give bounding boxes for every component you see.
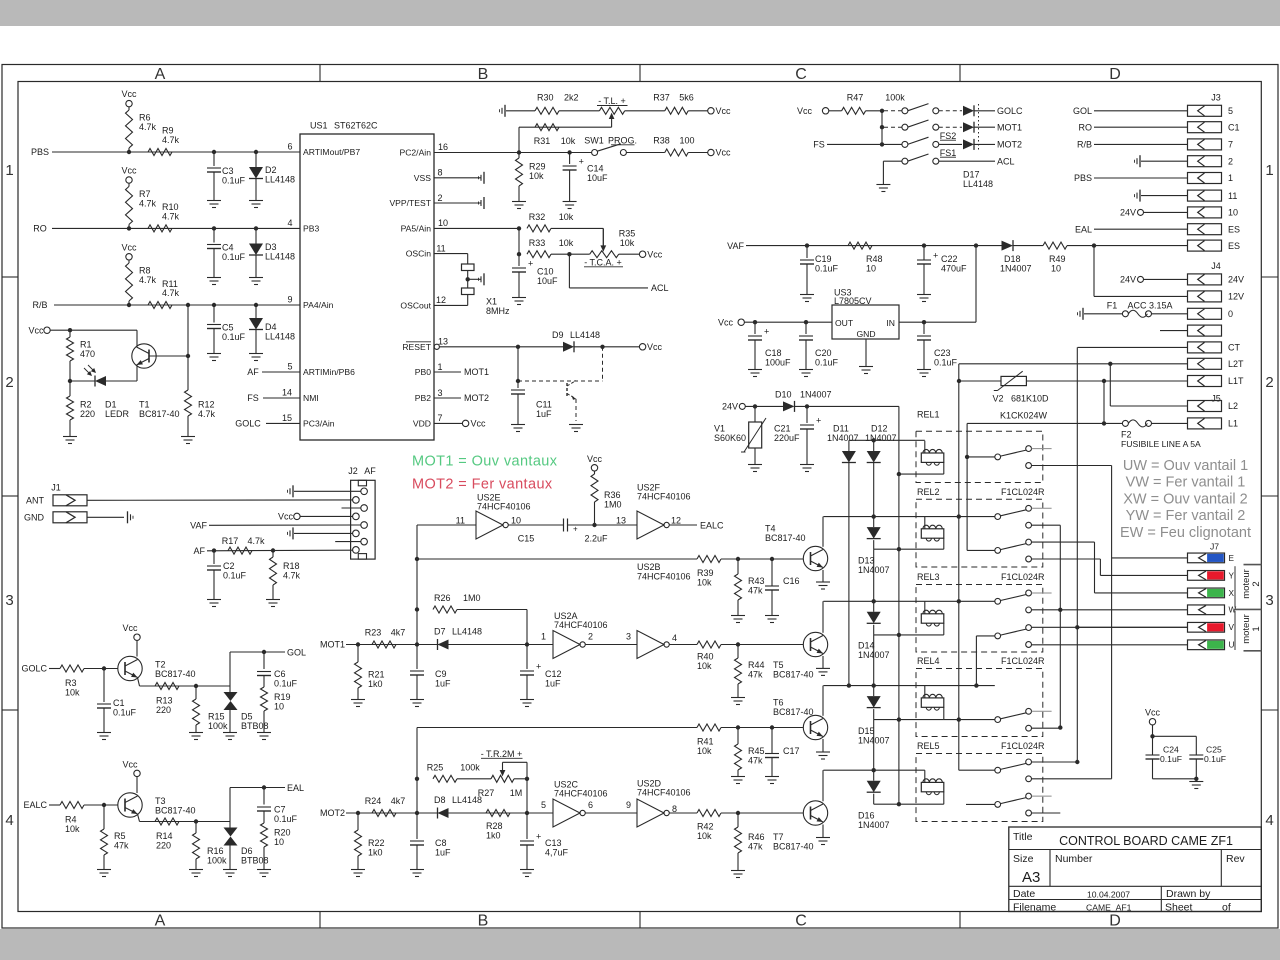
svg-text:C16: C16 [783, 576, 800, 586]
svg-text:R18: R18 [283, 561, 300, 571]
svg-text:A3: A3 [1022, 869, 1040, 886]
svg-text:24V: 24V [722, 402, 738, 412]
svg-text:2: 2 [1228, 156, 1233, 166]
svg-text:R46: R46 [748, 832, 765, 842]
svg-text:GOLC: GOLC [235, 419, 261, 429]
svg-text:AF: AF [247, 367, 259, 377]
svg-text:Vcc: Vcc [716, 148, 732, 158]
svg-text:1uF: 1uF [545, 679, 561, 689]
svg-text:YW = Fer vantail 2: YW = Fer vantail 2 [1126, 508, 1246, 524]
svg-text:VAF: VAF [727, 241, 744, 251]
svg-text:FS: FS [813, 140, 825, 150]
svg-text:74HCF40106: 74HCF40106 [554, 789, 608, 799]
svg-text:R6: R6 [139, 113, 151, 123]
svg-text:0.1uF: 0.1uF [1160, 754, 1182, 764]
svg-text:1M0: 1M0 [604, 499, 622, 509]
svg-text:4.7k: 4.7k [162, 212, 180, 222]
svg-text:Vcc: Vcc [587, 454, 603, 464]
svg-text:RO: RO [1079, 122, 1093, 132]
svg-text:Vcc: Vcc [121, 243, 137, 253]
svg-text:PB2: PB2 [415, 393, 431, 403]
svg-text:Title: Title [1013, 831, 1033, 843]
svg-text:C15: C15 [518, 533, 535, 543]
svg-text:R24: R24 [365, 796, 382, 806]
svg-text:R47: R47 [847, 93, 864, 103]
svg-text:12: 12 [671, 516, 681, 526]
svg-text:GND: GND [24, 512, 45, 522]
svg-text:BC817-40: BC817-40 [139, 409, 180, 419]
svg-text:2: 2 [1265, 374, 1273, 391]
svg-text:J5: J5 [1211, 394, 1221, 404]
svg-text:BC817-40: BC817-40 [155, 669, 196, 679]
svg-text:F1CL024R: F1CL024R [1001, 572, 1045, 582]
svg-text:GOL: GOL [287, 647, 306, 657]
svg-text:BC817-40: BC817-40 [773, 841, 814, 851]
svg-text:2.2uF: 2.2uF [584, 533, 608, 543]
svg-text:C21: C21 [774, 424, 791, 434]
svg-text:REL4: REL4 [917, 656, 940, 666]
svg-text:100k: 100k [885, 93, 905, 103]
svg-text:R19: R19 [274, 692, 291, 702]
svg-text:47k: 47k [748, 755, 763, 765]
svg-text:47k: 47k [748, 669, 763, 679]
svg-text:10k: 10k [697, 577, 712, 587]
svg-text:D7: D7 [434, 626, 446, 636]
svg-text:EAL: EAL [1075, 224, 1092, 234]
svg-text:1N4007: 1N4007 [800, 389, 832, 399]
svg-text:F1CL024R: F1CL024R [1001, 741, 1045, 751]
svg-text:74HCF40106: 74HCF40106 [477, 502, 531, 512]
svg-text:ACL: ACL [997, 156, 1015, 166]
svg-text:0.1uF: 0.1uF [113, 707, 137, 717]
svg-text:R5: R5 [114, 831, 126, 841]
svg-text:1: 1 [541, 631, 546, 641]
svg-text:GOLC: GOLC [997, 106, 1023, 116]
svg-text:1M: 1M [510, 788, 523, 798]
svg-text:3: 3 [437, 388, 442, 398]
svg-text:of: of [1222, 902, 1231, 914]
svg-text:+: + [579, 157, 584, 167]
svg-text:R28: R28 [486, 821, 503, 831]
svg-text:T6: T6 [773, 697, 784, 707]
svg-text:R23: R23 [365, 627, 382, 637]
svg-text:C23: C23 [934, 348, 951, 358]
svg-text:Filename: Filename [1013, 902, 1056, 914]
svg-text:100k: 100k [208, 721, 228, 731]
svg-text:PBS: PBS [31, 147, 49, 157]
svg-text:ARTIMout/PB7: ARTIMout/PB7 [303, 147, 360, 157]
svg-text:1N4007: 1N4007 [865, 433, 897, 443]
svg-text:D1: D1 [105, 400, 117, 410]
svg-text:74HCF40106: 74HCF40106 [554, 620, 608, 630]
svg-text:RO: RO [33, 224, 47, 234]
svg-text:C13: C13 [545, 838, 562, 848]
svg-text:R29: R29 [529, 162, 546, 172]
svg-text:12V: 12V [1228, 292, 1244, 302]
svg-text:7: 7 [1228, 140, 1233, 150]
svg-text:Date: Date [1013, 888, 1035, 900]
svg-text:10: 10 [274, 837, 284, 847]
svg-text:ANT: ANT [26, 495, 45, 505]
svg-text:VPP/TEST: VPP/TEST [389, 198, 431, 208]
svg-text:4: 4 [1265, 812, 1273, 829]
svg-text:X: X [1229, 589, 1235, 598]
svg-text:FS2: FS2 [940, 131, 957, 141]
svg-text:10k: 10k [561, 136, 576, 146]
svg-text:Vcc: Vcc [647, 342, 663, 352]
svg-text:R30: R30 [537, 93, 554, 103]
svg-text:Size: Size [1013, 853, 1034, 865]
svg-text:10: 10 [1228, 208, 1238, 218]
svg-text:PBS: PBS [1074, 173, 1092, 183]
svg-text:0.1uF: 0.1uF [1204, 754, 1226, 764]
svg-text:R48: R48 [866, 254, 883, 264]
svg-text:4.7k: 4.7k [139, 199, 157, 209]
svg-text:SW1: SW1 [584, 136, 604, 146]
svg-text:UW = Ouv vantail 1: UW = Ouv vantail 1 [1123, 458, 1248, 474]
svg-text:LL4148: LL4148 [570, 330, 600, 340]
svg-text:Vcc: Vcc [797, 106, 813, 116]
svg-text:470: 470 [80, 349, 95, 359]
svg-text:10k: 10k [697, 831, 712, 841]
svg-text:FUSIBILE LINE A 5A: FUSIBILE LINE A 5A [1121, 439, 1201, 449]
svg-text:220: 220 [156, 841, 171, 851]
svg-text:E: E [1229, 554, 1235, 563]
svg-text:11: 11 [436, 243, 445, 253]
svg-text:L1: L1 [1228, 419, 1238, 429]
svg-text:4.7k: 4.7k [198, 409, 216, 419]
svg-text:R41: R41 [697, 737, 714, 747]
svg-text:L7805CV: L7805CV [834, 296, 872, 306]
svg-text:C7: C7 [274, 805, 286, 815]
svg-text:47k: 47k [114, 841, 129, 851]
svg-text:REL3: REL3 [917, 572, 940, 582]
svg-text:PC3/Ain: PC3/Ain [303, 418, 335, 428]
svg-text:R3: R3 [65, 678, 77, 688]
svg-text:7: 7 [437, 413, 442, 423]
svg-text:R49: R49 [1049, 254, 1066, 264]
svg-text:ES: ES [1228, 241, 1240, 251]
svg-text:F1: F1 [1107, 300, 1118, 310]
svg-text:Vcc: Vcc [716, 106, 732, 116]
svg-text:LL4148: LL4148 [265, 332, 295, 342]
svg-text:BC817-40: BC817-40 [765, 533, 806, 543]
svg-text:VDD: VDD [413, 418, 431, 428]
svg-text:A: A [155, 66, 166, 83]
svg-text:R42: R42 [697, 821, 714, 831]
svg-text:R15: R15 [208, 712, 225, 722]
svg-text:D5: D5 [241, 712, 253, 722]
svg-text:OSCout: OSCout [400, 300, 431, 310]
svg-text:2: 2 [437, 193, 442, 203]
svg-text:R36: R36 [604, 490, 621, 500]
svg-text:10: 10 [438, 218, 448, 228]
svg-text:LL4148: LL4148 [963, 179, 993, 189]
svg-text:74HCF40106: 74HCF40106 [637, 788, 691, 798]
svg-text:R35: R35 [619, 229, 636, 239]
svg-text:R4: R4 [65, 815, 77, 825]
svg-text:4.7k: 4.7k [139, 275, 157, 285]
svg-text:10: 10 [1051, 263, 1061, 273]
svg-text:C: C [795, 913, 807, 930]
svg-text:470uF: 470uF [941, 263, 967, 273]
svg-text:RESET: RESET [402, 342, 431, 352]
svg-text:5: 5 [1228, 106, 1233, 116]
svg-text:24V: 24V [1120, 208, 1136, 218]
svg-text:Vcc: Vcc [718, 317, 734, 327]
svg-text:10uF: 10uF [537, 276, 558, 286]
svg-text:Number: Number [1055, 853, 1093, 865]
svg-text:10k: 10k [65, 688, 80, 698]
svg-text:V: V [1229, 623, 1235, 632]
svg-text:R9: R9 [162, 126, 174, 136]
svg-text:100: 100 [679, 135, 694, 145]
svg-text:R20: R20 [274, 828, 291, 838]
svg-text:D14: D14 [858, 641, 875, 651]
svg-text:MOT2: MOT2 [997, 140, 1022, 150]
svg-text:10uF: 10uF [587, 173, 608, 183]
svg-text:R/B: R/B [32, 300, 47, 310]
svg-text:0.1uF: 0.1uF [815, 263, 839, 273]
svg-text:V2: V2 [992, 393, 1003, 403]
svg-text:EAL: EAL [287, 783, 304, 793]
svg-text:R21: R21 [368, 670, 385, 680]
svg-text:F1CL024R: F1CL024R [1001, 487, 1045, 497]
svg-text:+: + [528, 259, 533, 269]
svg-text:BC817-40: BC817-40 [155, 806, 196, 816]
svg-text:C2: C2 [223, 561, 235, 571]
svg-text:PA4/Ain: PA4/Ain [303, 300, 334, 310]
svg-text:+: + [536, 662, 541, 672]
svg-text:1: 1 [1265, 162, 1273, 179]
svg-text:1N4007: 1N4007 [827, 433, 859, 443]
svg-text:J3: J3 [1211, 93, 1221, 103]
svg-text:10k: 10k [559, 238, 574, 248]
svg-text:FS: FS [247, 393, 259, 403]
svg-text:C1: C1 [113, 698, 125, 708]
svg-text:F1CL024R: F1CL024R [1001, 656, 1045, 666]
svg-text:10: 10 [866, 264, 876, 274]
svg-text:LEDR: LEDR [105, 409, 130, 419]
svg-text:3: 3 [626, 631, 631, 641]
svg-text:D4: D4 [265, 322, 277, 332]
svg-text:1uF: 1uF [536, 409, 552, 419]
svg-text:NMI: NMI [303, 393, 319, 403]
svg-text:Vcc: Vcc [647, 249, 663, 259]
svg-text:T3: T3 [155, 796, 166, 806]
svg-text:3: 3 [1265, 592, 1273, 609]
svg-text:+: + [933, 251, 938, 261]
svg-text:Vcc: Vcc [471, 419, 487, 429]
svg-text:6: 6 [287, 142, 292, 152]
svg-text:14: 14 [282, 388, 292, 398]
svg-text:100k: 100k [460, 762, 480, 772]
svg-text:- T.C.A. +: - T.C.A. + [584, 257, 622, 267]
svg-text:EW = Feu clignotant: EW = Feu clignotant [1120, 525, 1251, 541]
svg-text:1N4007: 1N4007 [1000, 263, 1032, 273]
svg-text:FS1: FS1 [940, 148, 957, 158]
svg-text:BC817-40: BC817-40 [773, 669, 814, 679]
svg-text:C22: C22 [941, 254, 958, 264]
svg-text:1: 1 [5, 162, 13, 179]
svg-text:47k: 47k [748, 841, 763, 851]
svg-text:4: 4 [672, 633, 677, 643]
svg-text:L1T: L1T [1228, 376, 1244, 386]
svg-text:12: 12 [436, 295, 446, 305]
svg-text:Drawn by: Drawn by [1166, 888, 1211, 900]
svg-text:K1CK024W: K1CK024W [1000, 411, 1048, 421]
svg-text:ACL: ACL [651, 283, 669, 293]
svg-text:LL4148: LL4148 [452, 626, 482, 636]
svg-text:B: B [478, 913, 489, 930]
svg-text:6: 6 [588, 800, 593, 810]
svg-text:PC2/Ain: PC2/Ain [399, 148, 431, 158]
svg-text:C3: C3 [222, 166, 234, 176]
svg-text:PB0: PB0 [415, 367, 431, 377]
svg-text:1M0: 1M0 [463, 593, 481, 603]
svg-text:+: + [573, 524, 578, 533]
svg-text:2: 2 [5, 374, 13, 391]
svg-text:24V: 24V [1228, 275, 1244, 285]
svg-text:R14: R14 [156, 831, 173, 841]
svg-text:R1: R1 [80, 340, 92, 350]
svg-text:Vcc: Vcc [121, 89, 137, 99]
svg-text:1uF: 1uF [435, 847, 451, 857]
svg-text:AF: AF [193, 546, 205, 556]
svg-text:Sheet: Sheet [1165, 902, 1193, 914]
svg-text:EALC: EALC [23, 800, 47, 810]
svg-text:PB3: PB3 [303, 223, 319, 233]
svg-text:10.04.2007: 10.04.2007 [1087, 890, 1130, 900]
svg-text:681K10D: 681K10D [1011, 393, 1049, 403]
svg-text:1k0: 1k0 [368, 679, 383, 689]
svg-text:0.1uF: 0.1uF [222, 252, 246, 262]
svg-text:MOT1: MOT1 [997, 122, 1022, 132]
svg-text:D: D [1109, 913, 1121, 930]
svg-text:R10: R10 [162, 202, 179, 212]
svg-text:D13: D13 [858, 556, 875, 566]
svg-text:D8: D8 [434, 795, 446, 805]
svg-text:2: 2 [1251, 581, 1262, 586]
svg-text:10k: 10k [620, 238, 635, 248]
svg-text:OUT: OUT [835, 318, 854, 328]
svg-text:4k7: 4k7 [391, 627, 406, 637]
svg-text:D9: D9 [552, 330, 564, 340]
svg-text:Rev: Rev [1226, 853, 1245, 865]
svg-text:R22: R22 [368, 838, 385, 848]
svg-text:2k2: 2k2 [564, 93, 579, 103]
svg-text:11: 11 [1228, 191, 1237, 201]
svg-text:R38: R38 [653, 135, 670, 145]
svg-text:MOT2: MOT2 [320, 808, 345, 818]
svg-text:VAF: VAF [190, 520, 207, 530]
svg-text:4: 4 [287, 218, 292, 228]
svg-text:0.1uF: 0.1uF [274, 679, 298, 689]
svg-text:- T.L. +: - T.L. + [598, 96, 626, 106]
svg-text:+: + [536, 832, 541, 842]
svg-text:4.7k: 4.7k [283, 571, 301, 581]
svg-text:5k6: 5k6 [679, 93, 694, 103]
svg-text:R33: R33 [529, 238, 546, 248]
svg-text:1: 1 [1228, 173, 1233, 183]
svg-text:J1: J1 [51, 483, 61, 493]
svg-text:CAME_AF1: CAME_AF1 [1086, 903, 1132, 913]
svg-text:3: 3 [5, 592, 13, 609]
svg-text:C12: C12 [545, 669, 562, 679]
svg-text:MOT1 = Ouv vantaux: MOT1 = Ouv vantaux [412, 454, 558, 470]
svg-text:74HCF40106: 74HCF40106 [637, 492, 691, 502]
svg-text:C8: C8 [435, 838, 447, 848]
svg-text:XW = Ouv vantail 2: XW = Ouv vantail 2 [1123, 492, 1248, 508]
svg-text:R8: R8 [139, 266, 151, 276]
svg-text:+: + [816, 416, 821, 426]
svg-text:220uF: 220uF [774, 433, 800, 443]
svg-text:0.1uF: 0.1uF [274, 814, 298, 824]
svg-text:R40: R40 [697, 651, 714, 661]
svg-text:8: 8 [437, 168, 442, 178]
svg-text:T1: T1 [139, 400, 150, 410]
svg-text:D16: D16 [858, 811, 875, 821]
svg-text:MOT1: MOT1 [320, 640, 345, 650]
svg-text:13: 13 [438, 337, 448, 347]
svg-text:100k: 100k [207, 856, 227, 866]
svg-text:T2: T2 [155, 660, 166, 670]
svg-text:1k0: 1k0 [486, 830, 501, 840]
svg-text:D2: D2 [265, 165, 277, 175]
svg-text:5: 5 [287, 362, 292, 372]
svg-text:0.1uF: 0.1uF [222, 332, 246, 342]
svg-text:Y: Y [1229, 571, 1235, 580]
svg-text:LL4148: LL4148 [452, 795, 482, 805]
svg-text:CONTROL BOARD CAME ZF1: CONTROL BOARD CAME ZF1 [1059, 834, 1233, 848]
svg-text:10: 10 [511, 516, 521, 526]
svg-text:CT: CT [1228, 343, 1240, 353]
svg-text:R12: R12 [198, 400, 215, 410]
svg-text:10k: 10k [529, 171, 544, 181]
svg-text:C10: C10 [537, 267, 554, 277]
svg-text:100uF: 100uF [765, 357, 791, 367]
svg-text:Vcc: Vcc [122, 759, 138, 769]
svg-text:10k: 10k [65, 824, 80, 834]
svg-text:R2: R2 [80, 400, 92, 410]
svg-text:C20: C20 [815, 348, 832, 358]
svg-text:Vcc: Vcc [121, 166, 137, 176]
svg-text:D15: D15 [858, 726, 875, 736]
svg-text:D10: D10 [775, 389, 792, 399]
svg-text:220: 220 [156, 705, 171, 715]
svg-text:T7: T7 [773, 832, 784, 842]
svg-text:Vcc: Vcc [122, 623, 138, 633]
svg-text:B: B [478, 66, 489, 83]
svg-text:10: 10 [274, 702, 284, 712]
svg-text:ACC 3.15A: ACC 3.15A [1127, 300, 1172, 310]
svg-text:C9: C9 [435, 669, 447, 679]
svg-text:1uF: 1uF [435, 679, 451, 689]
svg-text:ST62T62C: ST62T62C [334, 121, 378, 131]
svg-text:74HCF40106: 74HCF40106 [637, 571, 691, 581]
svg-text:D: D [1109, 66, 1121, 83]
svg-text:10k: 10k [559, 212, 574, 222]
svg-text:T5: T5 [773, 660, 784, 670]
svg-text:J2: J2 [348, 466, 358, 476]
svg-text:AF: AF [364, 466, 376, 476]
svg-text:ARTIMin/PB6: ARTIMin/PB6 [303, 367, 355, 377]
svg-text:MOT2 = Fer vantaux: MOT2 = Fer vantaux [412, 477, 553, 493]
svg-text:IN: IN [886, 318, 895, 328]
svg-text:16: 16 [438, 142, 448, 152]
svg-text:V1: V1 [714, 424, 725, 434]
svg-text:10k: 10k [697, 746, 712, 756]
